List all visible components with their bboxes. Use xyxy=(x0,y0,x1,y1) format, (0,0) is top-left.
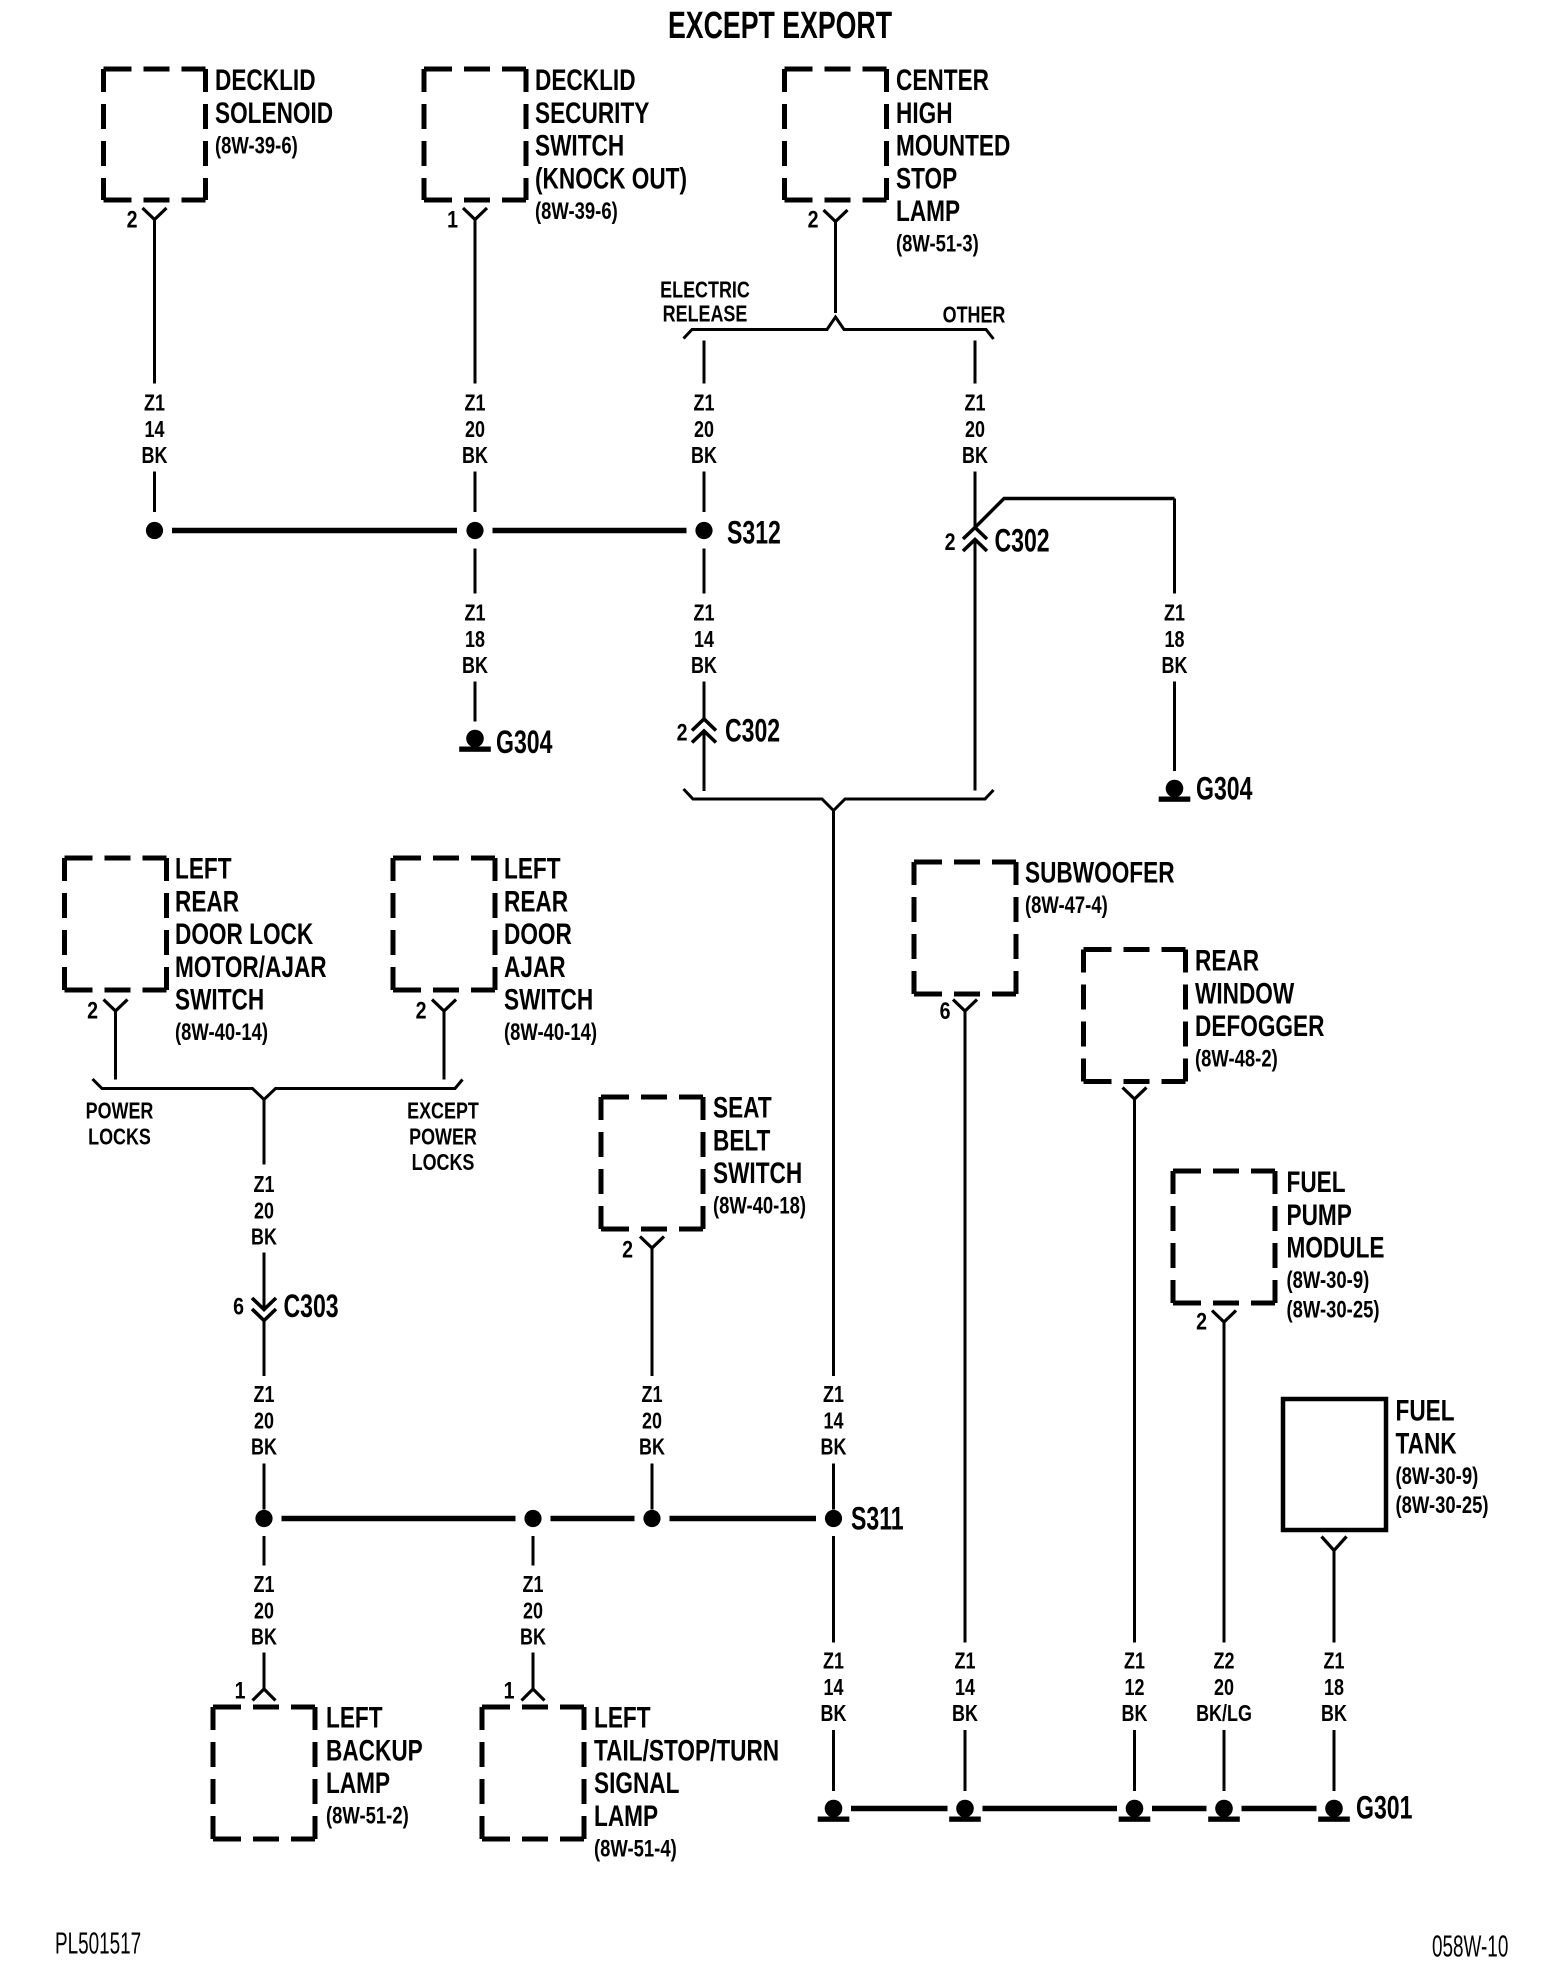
connector C302 (left, 2 chevrons) xyxy=(677,712,781,749)
svg-text:2: 2 xyxy=(945,528,956,556)
svg-text:058W-10: 058W-10 xyxy=(1432,1930,1508,1964)
label Z1 14 BK (main wire above S311) xyxy=(821,1382,847,1460)
wire Z1 14 BK from S311 to ground G301 xyxy=(832,1536,835,1791)
svg-text:LEFT: LEFT xyxy=(326,1701,383,1735)
svg-text:(8W-30-25): (8W-30-25) xyxy=(1287,1296,1380,1323)
label ELECTRIC RELEASE xyxy=(660,277,750,327)
label Z1 18 BK (right, to G304) xyxy=(1162,600,1188,678)
svg-text:BK: BK xyxy=(251,1434,277,1460)
wire Z1 20 BK from seat belt switch to splice S311 xyxy=(651,1248,654,1510)
label Z1 20 BK (seat belt wire) xyxy=(639,1382,665,1460)
svg-text:Z1: Z1 xyxy=(1124,1648,1145,1674)
svg-text:LEFT: LEFT xyxy=(594,1701,651,1735)
component CENTER HIGH MOUNTED STOP LAMP (8W-51-3) dashed box xyxy=(785,63,1011,257)
svg-text:C303: C303 xyxy=(284,1287,339,1324)
svg-text:18: 18 xyxy=(1165,627,1185,653)
svg-text:FUEL: FUEL xyxy=(1396,1394,1455,1428)
svg-text:BK: BK xyxy=(1321,1701,1347,1727)
svg-text:BK: BK xyxy=(691,443,717,469)
label OTHER xyxy=(943,302,1006,328)
svg-text:Z1: Z1 xyxy=(642,1382,663,1408)
svg-text:Z1: Z1 xyxy=(523,1572,544,1598)
svg-text:2: 2 xyxy=(808,205,819,233)
svg-text:BK: BK xyxy=(1162,653,1188,679)
label Z2 20 BK/LG (fuel pump wire) xyxy=(1196,1648,1252,1726)
svg-text:Z1: Z1 xyxy=(254,1382,275,1408)
merge brace POWER LOCKS / EXCEPT POWER LOCKS xyxy=(93,1079,463,1100)
svg-text:G304: G304 xyxy=(496,723,553,760)
junction dot S311 xyxy=(825,1500,904,1537)
svg-text:Z1: Z1 xyxy=(254,1172,275,1198)
pin of FUEL TANK xyxy=(1322,1537,1347,1551)
svg-text:AJAR: AJAR xyxy=(504,950,566,984)
pin 2 of LEFT REAR DOOR LOCK MOTOR/AJAR SWITCH xyxy=(87,996,127,1024)
svg-text:Z1: Z1 xyxy=(965,390,986,416)
svg-text:SWITCH: SWITCH xyxy=(713,1156,802,1190)
pin 2 of LEFT REAR DOOR AJAR SWITCH xyxy=(416,996,456,1024)
junction dot at S311 (seat belt wire) xyxy=(643,1510,660,1527)
svg-text:Z1: Z1 xyxy=(955,1648,976,1674)
svg-text:BK: BK xyxy=(462,443,488,469)
label POWER LOCKS xyxy=(86,1098,154,1150)
split brace ELECTRIC RELEASE / OTHER xyxy=(684,317,994,339)
svg-text:BK: BK xyxy=(639,1434,665,1460)
svg-text:Z1: Z1 xyxy=(694,390,715,416)
label Z1 20 BK (decklid security switch wire) xyxy=(462,390,488,468)
pin 2 of CENTER HIGH MOUNTED STOP LAMP xyxy=(808,205,848,233)
svg-text:(KNOCK OUT): (KNOCK OUT) xyxy=(535,162,687,196)
component DECKLID SECURITY SWITCH (KNOCK OUT) (8W-39-6) dashed box xyxy=(424,63,687,224)
svg-text:20: 20 xyxy=(965,417,985,443)
wire Z1 20 BK from S311 to left tail/stop/turn lamp xyxy=(532,1536,535,1689)
svg-text:SIGNAL: SIGNAL xyxy=(594,1766,679,1800)
svg-text:FUEL: FUEL xyxy=(1287,1165,1346,1199)
label Z1 20 BK (other branch) xyxy=(962,390,988,468)
svg-text:2: 2 xyxy=(1196,1307,1207,1335)
ground G301 bus line xyxy=(851,1806,1317,1812)
svg-text:(8W-40-18): (8W-40-18) xyxy=(713,1192,806,1219)
label Z1 14 BK (subwoofer wire) xyxy=(952,1648,978,1726)
ground G304 (below decklid security switch) xyxy=(459,723,552,760)
junction dot at S311 (tail lamp wire) xyxy=(524,1510,541,1527)
svg-text:BK: BK xyxy=(462,653,488,679)
svg-text:(8W-39-6): (8W-39-6) xyxy=(535,198,618,225)
svg-text:Z1: Z1 xyxy=(254,1572,275,1598)
svg-text:REAR: REAR xyxy=(175,884,239,918)
svg-text:(8W-51-3): (8W-51-3) xyxy=(896,230,979,257)
svg-text:SUBWOOFER: SUBWOOFER xyxy=(1025,856,1175,890)
wire Z1 18 BK from fuel tank to ground G301 xyxy=(1333,1551,1336,1792)
component DECKLID SOLENOID (8W-39-6) dashed box xyxy=(104,63,334,200)
pin 2 of FUEL PUMP MODULE xyxy=(1196,1307,1236,1335)
svg-text:LAMP: LAMP xyxy=(326,1766,390,1800)
label Z1 20 BK (C303 to S311) xyxy=(251,1382,277,1460)
svg-text:Z1: Z1 xyxy=(465,390,486,416)
svg-text:DOOR LOCK: DOOR LOCK xyxy=(175,917,313,951)
svg-text:DECKLID: DECKLID xyxy=(215,63,316,97)
svg-text:REAR: REAR xyxy=(1195,944,1259,978)
svg-text:6: 6 xyxy=(940,997,951,1025)
svg-text:EXCEPT: EXCEPT xyxy=(407,1098,479,1124)
svg-text:1: 1 xyxy=(504,1676,515,1704)
ground splice G301 (fuel tank) xyxy=(1318,1789,1412,1826)
svg-text:LOCKS: LOCKS xyxy=(88,1124,151,1150)
svg-text:S311: S311 xyxy=(851,1500,904,1537)
component LEFT TAIL/STOP/TURN SIGNAL LAMP (8W-51-4) dashed box xyxy=(482,1701,779,1862)
svg-text:2: 2 xyxy=(87,996,98,1024)
label Z1 18 BK (to G304) xyxy=(462,600,488,678)
svg-text:SWITCH: SWITCH xyxy=(504,983,593,1017)
svg-text:BK: BK xyxy=(251,1624,277,1650)
svg-text:MOUNTED: MOUNTED xyxy=(896,129,1010,163)
svg-text:POWER: POWER xyxy=(86,1098,154,1124)
wire Z1 20 BK other branch to connector C302 xyxy=(974,341,977,528)
svg-text:Z1: Z1 xyxy=(1164,600,1185,626)
pin 1 of LEFT BACKUP LAMP xyxy=(235,1676,276,1704)
svg-text:2: 2 xyxy=(416,996,427,1024)
svg-text:DEFOGGER: DEFOGGER xyxy=(1195,1009,1325,1043)
wire from C302 right to merge brace xyxy=(974,540,977,791)
svg-text:BK: BK xyxy=(520,1624,546,1650)
junction dot S312 xyxy=(695,514,780,551)
svg-text:BK: BK xyxy=(821,1701,847,1727)
svg-text:WINDOW: WINDOW xyxy=(1195,976,1295,1010)
svg-text:DECKLID: DECKLID xyxy=(535,63,636,97)
footer drawing number 058W-10 xyxy=(1432,1930,1508,1964)
svg-text:14: 14 xyxy=(955,1675,975,1701)
wire Z1 12 BK from defogger to ground G301 xyxy=(1133,1099,1136,1791)
wire Z1 20 BK electric-release branch to splice S312 xyxy=(703,341,706,513)
splice S312 bus line xyxy=(172,528,687,534)
pin 1 of DECKLID SECURITY SWITCH xyxy=(447,205,487,233)
svg-text:(8W-51-2): (8W-51-2) xyxy=(326,1802,409,1829)
svg-text:LEFT: LEFT xyxy=(175,852,232,886)
svg-text:ELECTRIC: ELECTRIC xyxy=(660,277,750,303)
pin 1 of LEFT TAIL/STOP/TURN SIGNAL LAMP xyxy=(504,1676,545,1704)
svg-text:G301: G301 xyxy=(1356,1789,1412,1826)
svg-text:(8W-30-9): (8W-30-9) xyxy=(1287,1267,1370,1294)
svg-text:20: 20 xyxy=(465,417,485,443)
svg-text:LEFT: LEFT xyxy=(504,852,561,886)
pin 6 of SUBWOOFER xyxy=(940,997,977,1025)
ground splice G301 (main wire) xyxy=(818,1800,850,1822)
svg-text:(8W-48-2): (8W-48-2) xyxy=(1195,1045,1278,1072)
svg-text:(8W-51-4): (8W-51-4) xyxy=(594,1835,677,1862)
component LEFT BACKUP LAMP (8W-51-2) dashed box xyxy=(213,1701,423,1839)
svg-text:BK: BK xyxy=(691,653,717,679)
svg-text:SWITCH: SWITCH xyxy=(535,129,624,163)
wire Z1 18 BK from S312 to ground G304 xyxy=(474,549,477,722)
svg-text:BK: BK xyxy=(962,443,988,469)
svg-text:Z1: Z1 xyxy=(823,1648,844,1674)
svg-text:BK: BK xyxy=(952,1701,978,1727)
wire from CHMSL pin 2 to split brace xyxy=(834,222,837,314)
label Z1 20 BK (tail lamp wire) xyxy=(520,1572,546,1650)
svg-text:20: 20 xyxy=(254,1598,274,1624)
svg-text:20: 20 xyxy=(254,1408,274,1434)
svg-text:MODULE: MODULE xyxy=(1287,1231,1385,1265)
label Z1 14 BK (S312 to C302) xyxy=(691,600,717,678)
svg-text:CENTER: CENTER xyxy=(896,63,989,97)
svg-text:LAMP: LAMP xyxy=(896,194,960,228)
label Z1 12 BK (defogger wire) xyxy=(1122,1648,1148,1726)
component REAR WINDOW DEFOGGER (8W-48-2) dashed box xyxy=(1084,944,1325,1082)
footer sheet number PL501517 xyxy=(55,1927,141,1961)
component FUEL TANK (8W-30-9)(8W-30-25) solid box xyxy=(1283,1394,1489,1530)
wire Z1 20 BK from DECKLID SECURITY SWITCH pin 1 to splice S312 xyxy=(474,220,477,513)
junction dot at S312 (decklid solenoid) xyxy=(146,522,163,539)
svg-text:(8W-30-9): (8W-30-9) xyxy=(1396,1463,1479,1490)
wire Z1 14 BK from S312 to connector C302 (left) xyxy=(703,549,706,720)
pin 2 of DECKLID SOLENOID xyxy=(127,205,167,233)
svg-text:BACKUP: BACKUP xyxy=(326,1733,423,1767)
svg-text:BK: BK xyxy=(1122,1701,1148,1727)
svg-text:20: 20 xyxy=(694,417,714,443)
svg-text:DOOR: DOOR xyxy=(504,917,572,951)
svg-text:OTHER: OTHER xyxy=(943,302,1006,328)
svg-text:6: 6 xyxy=(233,1292,244,1320)
svg-text:Z1: Z1 xyxy=(1324,1648,1345,1674)
ground G304 (right) xyxy=(1159,770,1253,807)
component LEFT REAR DOOR LOCK MOTOR/AJAR SWITCH (8W-40-14) dashed box xyxy=(65,852,327,1046)
label Z1 18 BK (fuel tank wire) xyxy=(1321,1648,1347,1726)
svg-text:14: 14 xyxy=(824,1675,844,1701)
wire from C302 right to G304 (diagonal + horizontal) xyxy=(975,499,1175,772)
svg-text:14: 14 xyxy=(824,1408,844,1434)
main wire Z1 14 BK from merge brace to splice S311 xyxy=(832,811,835,1510)
wire Z1 20 BK from brace to connector C303 xyxy=(263,1100,266,1310)
svg-text:EXCEPT EXPORT: EXCEPT EXPORT xyxy=(668,3,892,46)
svg-text:SOLENOID: SOLENOID xyxy=(215,96,333,130)
svg-text:SWITCH: SWITCH xyxy=(175,983,264,1017)
svg-text:STOP: STOP xyxy=(896,162,957,196)
svg-text:SEAT: SEAT xyxy=(713,1091,772,1125)
svg-text:Z2: Z2 xyxy=(1214,1648,1235,1674)
svg-text:1: 1 xyxy=(447,205,458,233)
svg-text:Z1: Z1 xyxy=(694,600,715,626)
svg-text:2: 2 xyxy=(127,205,138,233)
junction dot at S311 (backup lamp wire) xyxy=(255,1510,272,1527)
svg-text:SECURITY: SECURITY xyxy=(535,96,649,130)
svg-text:MOTOR/AJAR: MOTOR/AJAR xyxy=(175,950,327,984)
svg-text:BK/LG: BK/LG xyxy=(1196,1701,1252,1727)
component FUEL PUMP MODULE (8W-30-9)(8W-30-25) dashed box xyxy=(1173,1165,1385,1323)
wire from door ajar switch pin 2 to brace xyxy=(443,1011,446,1080)
ground splice G301 (defogger) xyxy=(1119,1800,1151,1822)
svg-text:HIGH: HIGH xyxy=(896,96,953,130)
svg-text:RELEASE: RELEASE xyxy=(663,301,748,327)
svg-text:12: 12 xyxy=(1125,1675,1145,1701)
ground splice G301 (fuel pump) xyxy=(1208,1800,1240,1822)
svg-text:C302: C302 xyxy=(995,522,1050,559)
splice S311 bus line xyxy=(282,1516,817,1522)
svg-text:20: 20 xyxy=(254,1198,274,1224)
label Z1 14 BK (decklid solenoid wire) xyxy=(142,390,168,468)
svg-text:PUMP: PUMP xyxy=(1287,1198,1352,1232)
connector C303 (6-way, 2 chevrons down) xyxy=(233,1287,339,1324)
label Z1 20 BK (above C303) xyxy=(251,1172,277,1250)
wire Z1 14 BK from DECKLID SOLENOID pin 2 to splice S312 xyxy=(153,220,156,513)
svg-text:2: 2 xyxy=(622,1235,633,1263)
pin 2 of SEAT BELT SWITCH xyxy=(622,1235,664,1263)
label Z1 20 BK (electric release branch) xyxy=(691,390,717,468)
component SUBWOOFER (8W-47-4) dashed box xyxy=(914,856,1175,994)
ground splice G301 (subwoofer) xyxy=(949,1800,981,1822)
svg-text:(8W-30-25): (8W-30-25) xyxy=(1396,1492,1489,1519)
svg-text:14: 14 xyxy=(145,417,165,443)
svg-text:LAMP: LAMP xyxy=(594,1799,658,1833)
junction dot at S312 (decklid security switch) xyxy=(466,522,483,539)
svg-text:Z1: Z1 xyxy=(823,1382,844,1408)
component LEFT REAR DOOR AJAR SWITCH (8W-40-14) dashed box xyxy=(393,852,597,1046)
svg-text:(8W-40-14): (8W-40-14) xyxy=(175,1019,268,1046)
svg-text:2: 2 xyxy=(677,718,688,746)
svg-text:S312: S312 xyxy=(727,514,781,551)
wire Z1 20 BK from S311 to left backup lamp xyxy=(263,1536,266,1689)
svg-text:REAR: REAR xyxy=(504,884,568,918)
wire from C302 left to merge brace xyxy=(703,731,706,791)
pin of REAR WINDOW DEFOGGER xyxy=(1123,1088,1147,1100)
svg-text:TAIL/STOP/TURN: TAIL/STOP/TURN xyxy=(594,1733,779,1767)
svg-text:(8W-47-4): (8W-47-4) xyxy=(1025,892,1108,919)
svg-text:Z1: Z1 xyxy=(144,390,165,416)
svg-text:20: 20 xyxy=(642,1408,662,1434)
svg-text:LOCKS: LOCKS xyxy=(412,1150,475,1176)
svg-text:PL501517: PL501517 xyxy=(55,1927,141,1961)
label Z1 14 BK (S311 to G301) xyxy=(821,1648,847,1726)
merge brace above main ground wire xyxy=(684,789,994,811)
svg-text:14: 14 xyxy=(694,627,714,653)
svg-text:20: 20 xyxy=(523,1598,543,1624)
connector C302 (right, 2 chevrons) xyxy=(945,522,1050,559)
wire Z1 14 BK from subwoofer pin 6 to ground G301 xyxy=(964,1011,967,1791)
svg-text:BK: BK xyxy=(251,1224,277,1250)
svg-text:(8W-40-14): (8W-40-14) xyxy=(504,1019,597,1046)
svg-text:20: 20 xyxy=(1214,1675,1234,1701)
svg-text:G304: G304 xyxy=(1196,770,1253,807)
svg-text:Z1: Z1 xyxy=(465,600,486,626)
component SEAT BELT SWITCH (8W-40-18) dashed box xyxy=(601,1091,806,1229)
svg-text:1: 1 xyxy=(235,1676,246,1704)
svg-text:TANK: TANK xyxy=(1396,1426,1457,1460)
title EXCEPT EXPORT xyxy=(668,3,892,46)
svg-text:18: 18 xyxy=(1324,1675,1344,1701)
wire from door lock motor pin 2 to power-locks brace xyxy=(114,1011,117,1080)
svg-text:BELT: BELT xyxy=(713,1123,770,1157)
svg-text:18: 18 xyxy=(465,627,485,653)
wire Z1 20 BK from C303 to splice S311 xyxy=(263,1321,266,1510)
svg-text:BK: BK xyxy=(142,443,168,469)
svg-text:POWER: POWER xyxy=(409,1124,477,1150)
svg-text:BK: BK xyxy=(821,1434,847,1460)
svg-text:C302: C302 xyxy=(725,712,780,749)
svg-text:(8W-39-6): (8W-39-6) xyxy=(215,132,298,159)
wire Z2 20 BK/LG from fuel pump module to ground G301 xyxy=(1223,1322,1226,1791)
label Z1 20 BK (backup lamp wire) xyxy=(251,1572,277,1650)
label EXCEPT POWER LOCKS xyxy=(407,1098,479,1175)
